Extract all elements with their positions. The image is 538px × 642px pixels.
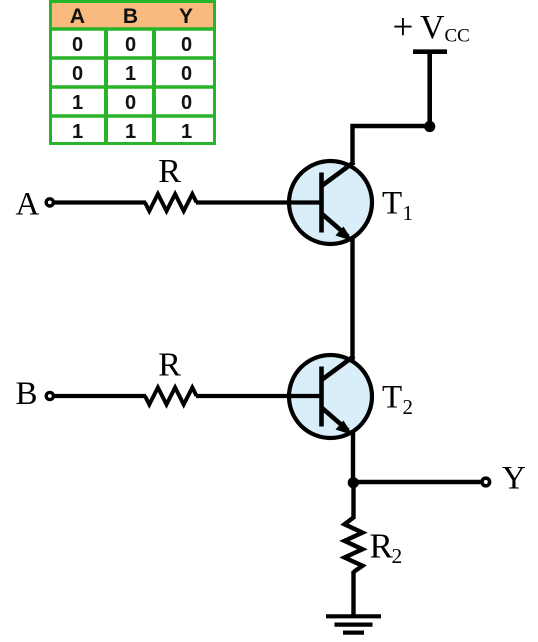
label T2 [382,380,413,420]
svg-text:B: B [16,376,38,412]
wire T2 emitter to node Y [351,432,355,484]
wire R to T1 base [196,200,322,204]
wire Vcc stem [427,52,432,127]
ground [326,616,381,632]
svg-text:1: 1 [72,92,83,114]
svg-text:0: 0 [125,92,136,114]
svg-text:0: 0 [181,63,192,85]
wire R2 to ground [351,571,355,616]
transistor T2 internals [322,356,355,435]
label T1 [382,186,413,226]
wire Vcc node to T1 collector [353,126,430,165]
svg-text:A: A [16,187,40,223]
truth table header text A B Y [70,5,193,28]
label R2 [370,527,403,569]
node Vcc junction [424,121,435,132]
resistor R (input B) [145,388,197,405]
svg-text:2: 2 [403,395,414,419]
resistor R2 [345,518,363,573]
svg-text:T: T [382,380,402,416]
wire node Y to terminal Y [353,480,481,484]
svg-text:B: B [123,5,138,28]
wire R to T2 base [196,394,322,398]
resistor R (input A) [145,194,197,211]
wire node Y to resistor R2 [351,483,355,519]
svg-text:0: 0 [72,34,83,56]
wire T1 emitter to T2 collector [350,238,354,364]
svg-text:Y: Y [502,461,526,497]
svg-text:CC: CC [445,26,470,47]
transistor T2 [289,355,372,438]
truth table header band [52,3,213,28]
svg-text:0: 0 [181,92,192,114]
svg-text:2: 2 [392,544,403,568]
node Y junction [348,477,359,488]
svg-text:V: V [420,9,445,46]
svg-text:0: 0 [72,63,83,85]
transistor T1 [289,161,372,244]
svg-text:1: 1 [181,121,192,143]
svg-text:1: 1 [403,201,414,225]
label +Vcc [393,7,470,48]
svg-text:R: R [158,347,181,384]
truth table column lines [104,29,108,143]
terminal Y [482,478,490,486]
truth table [49,2,216,144]
terminal A [46,199,53,206]
truth table outer border [51,2,215,144]
svg-text:0: 0 [125,34,136,56]
svg-text:1: 1 [72,121,83,143]
svg-text:Y: Y [179,5,193,28]
truth table row lines [49,27,216,30]
svg-text:+: + [393,7,414,48]
svg-text:0: 0 [181,34,192,56]
svg-text:R: R [370,527,394,566]
wire A to resistor R [55,200,147,204]
truth table data digits [72,34,192,143]
svg-text:1: 1 [125,121,136,143]
transistor T1 internals [322,162,355,241]
svg-text:T: T [382,186,402,222]
svg-text:A: A [70,5,85,28]
Vcc supply bar [413,49,447,54]
terminal B [46,392,53,399]
svg-text:1: 1 [125,63,136,85]
svg-text:R: R [158,153,181,190]
wire B to resistor R [55,394,147,398]
